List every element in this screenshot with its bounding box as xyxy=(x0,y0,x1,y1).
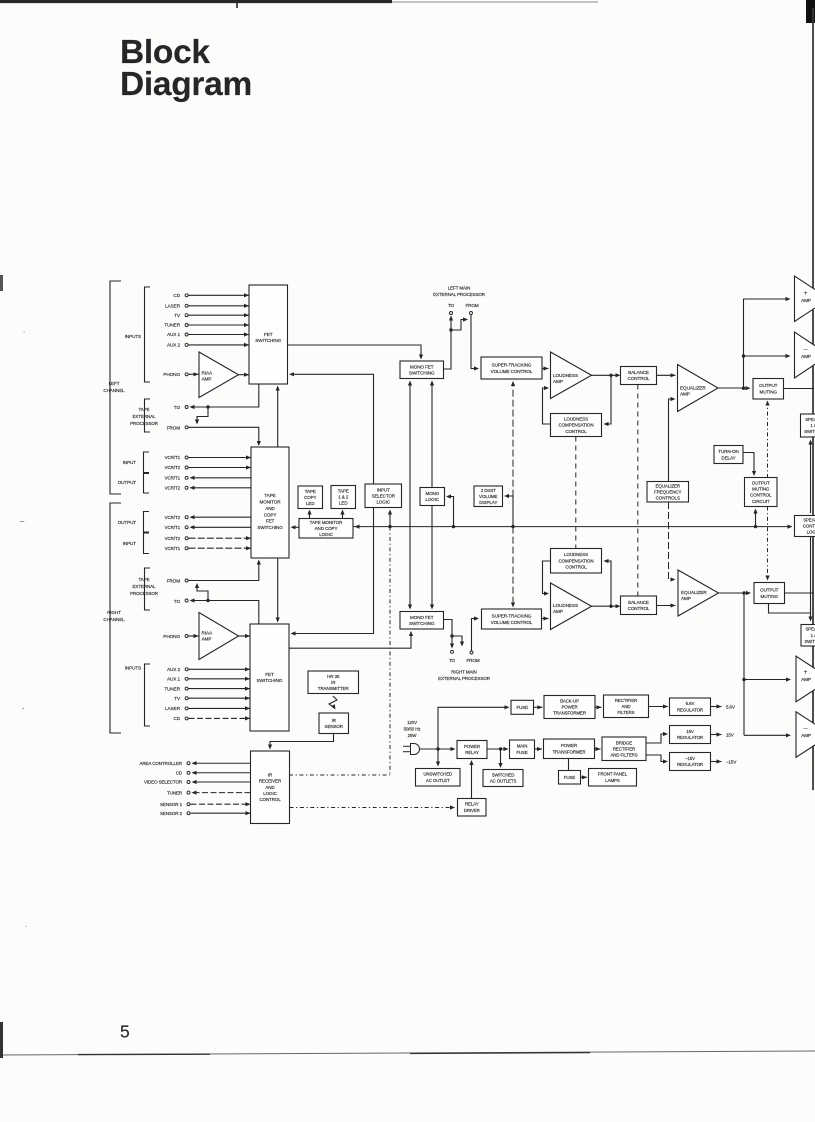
svg-text:LED: LED xyxy=(306,501,315,506)
bracket INPUT vcr right xyxy=(144,533,150,554)
svg-text:EXTERNAL PROCESSOR: EXTERNAL PROCESSOR xyxy=(433,292,486,297)
wire output muting right to right edge xyxy=(785,592,815,594)
bracket TAPE EXTERNAL PROCESSOR (left) xyxy=(145,399,151,432)
wire tape led drive xyxy=(342,511,344,519)
box IR RECEIVER AND LOGIC CONTROL xyxy=(251,751,290,824)
box LOUDNESS COMPENSATION CONTROL (left) xyxy=(551,414,602,437)
bracket OUTPUT vcr right xyxy=(144,512,150,533)
svg-text:CONTROL: CONTROL xyxy=(259,797,281,802)
svg-text:LOUDNESS: LOUDNESS xyxy=(553,373,578,378)
wire relay driver to power relay xyxy=(471,762,473,799)
ganged dashed link loudness compensation xyxy=(575,437,577,549)
ganged dashed link balance controls xyxy=(637,385,639,597)
svg-text:PROCESSOR: PROCESSOR xyxy=(130,591,159,596)
svg-text:POWER: POWER xyxy=(464,744,480,749)
op-amp EQUALIZER AMP (right) xyxy=(678,570,719,616)
junction right main TO wire xyxy=(450,634,453,637)
op-amp LOUDNESS AMP (left) xyxy=(551,352,592,399)
wire input selector logic to FET right xyxy=(292,508,374,634)
box -15V REGULATOR xyxy=(670,753,711,771)
svg-text:VCR/T2: VCR/T2 xyxy=(165,465,181,470)
svg-text:RECEIVER: RECEIVER xyxy=(259,779,282,784)
svg-text:OUTPUT: OUTPUT xyxy=(118,480,137,485)
box RECTIFIER AND FILTERS xyxy=(604,695,649,718)
svg-text:CD: CD xyxy=(173,716,180,721)
svg-text:SPEAKER: SPEAKER xyxy=(803,517,815,522)
box SUPER-TRACKING VOLUME CONTROL (right) xyxy=(482,609,542,629)
svg-text:FROM: FROM xyxy=(465,303,478,308)
svg-text:TUNER: TUNER xyxy=(164,686,180,691)
svg-text:TV: TV xyxy=(174,696,181,701)
svg-text:AUX 1: AUX 1 xyxy=(167,332,181,337)
normalled contact right main xyxy=(452,636,462,645)
svg-text:AMP: AMP xyxy=(202,377,212,382)
wire copy led drive xyxy=(309,511,311,519)
svg-text:UNSWITCHED: UNSWITCHED xyxy=(423,772,452,777)
box 5.6V REGULATOR xyxy=(670,698,711,716)
svg-text:AMP: AMP xyxy=(553,609,563,614)
svg-text:INPUT: INPUT xyxy=(123,541,137,546)
svg-text:EQUALIZER: EQUALIZER xyxy=(680,386,706,391)
svg-text:DRIVER: DRIVER xyxy=(464,808,480,813)
svg-text:LOUDNESS: LOUDNESS xyxy=(553,603,578,608)
bracket INPUTS right xyxy=(145,664,151,726)
jack FROM (right main ext processor) xyxy=(470,651,473,654)
wire feed to power amps right xyxy=(743,593,745,735)
svg-text:SWITCHING: SWITCHING xyxy=(409,370,435,375)
wire equalizer frequency controls to eq amp left xyxy=(669,399,675,482)
svg-text:AMP: AMP xyxy=(202,637,212,642)
junction control bus at muting xyxy=(754,525,757,528)
wire volume control to loudness amp left xyxy=(542,368,549,370)
wire balance to equalizer amp left xyxy=(657,374,676,376)
svg-text:PHONO: PHONO xyxy=(163,634,180,639)
svg-text:FROM: FROM xyxy=(167,579,181,584)
svg-text:AMP: AMP xyxy=(801,677,811,682)
svg-text:VOLUME: VOLUME xyxy=(479,494,498,499)
svg-text:REGULATOR: REGULATOR xyxy=(677,735,703,740)
wire IR logic to relay driver xyxy=(290,807,454,809)
svg-text:VCR/T1: VCR/T1 xyxy=(165,525,181,530)
svg-text:SWITCHING: SWITCHING xyxy=(409,621,435,626)
wire back-up transformer to rectifier xyxy=(595,706,602,708)
wire output muting left to right edge xyxy=(784,388,815,390)
power amp - AMP (left) xyxy=(795,332,815,378)
svg-text:RECTIFIER: RECTIFIER xyxy=(613,746,635,751)
svg-text:TAPE: TAPE xyxy=(138,577,149,582)
svg-text:VCR/T2: VCR/T2 xyxy=(165,486,181,491)
svg-text:CONTROL: CONTROL xyxy=(628,376,650,381)
svg-text:INPUTS: INPUTS xyxy=(125,666,141,671)
wire output muting right to speaker switch xyxy=(769,604,811,614)
box 2 DIGIT VOLUME DISPLAY xyxy=(474,486,503,507)
wire speaker logic to speaker switch left xyxy=(810,441,812,513)
right page edge line xyxy=(812,8,814,790)
svg-text:FET: FET xyxy=(265,672,274,677)
svg-text:TUNER: TUNER xyxy=(164,323,180,328)
control bus horizontal xyxy=(353,526,791,528)
wire bus to volume control right xyxy=(512,527,514,606)
svg-text:SWITCHED: SWITCHED xyxy=(492,772,515,777)
svg-text:1 & 2: 1 & 2 xyxy=(338,495,349,500)
junction on left main TO wire xyxy=(449,328,452,331)
svg-text:FET: FET xyxy=(266,519,275,524)
wire FET right out to MONO FET right xyxy=(289,633,411,649)
svg-text:EXTERNAL: EXTERNAL xyxy=(133,584,157,589)
svg-text:+: + xyxy=(804,669,808,676)
wire to loudness compensation left xyxy=(605,375,611,424)
wire control bus up into muting control circuit xyxy=(755,510,757,527)
svg-text:MUTING: MUTING xyxy=(759,390,777,395)
svg-text:SWITCHING: SWITCHING xyxy=(257,525,283,530)
box IR SENSOR xyxy=(319,713,349,734)
normalled contact left main xyxy=(451,320,467,331)
bracket LEFT CHANNEL xyxy=(110,281,121,494)
op-amp EQUALIZER AMP (left) xyxy=(678,365,719,412)
box OUTPUT MUTING (left) xyxy=(753,379,784,400)
svg-text:AND: AND xyxy=(622,704,631,709)
wire 5.6V output xyxy=(711,706,722,708)
box 15V REGULATOR xyxy=(670,726,711,744)
svg-text:LOGIC: LOGIC xyxy=(376,499,390,504)
svg-text:TAPE: TAPE xyxy=(338,489,349,494)
svg-text:AMP: AMP xyxy=(801,733,811,738)
svg-text:TRANSMITTER: TRANSMITTER xyxy=(318,686,350,691)
box SWITCHED AC OUTLETS xyxy=(483,770,523,787)
wire RIAA out to FET switching xyxy=(239,374,250,376)
op-amp RIAA AMP (right) xyxy=(199,613,239,660)
svg-text:LOGIC: LOGIC xyxy=(425,497,439,502)
svg-text:15V: 15V xyxy=(726,733,734,738)
svg-text:VCR/T2: VCR/T2 xyxy=(165,515,181,520)
svg-text:TRANSFORMER: TRANSFORMER xyxy=(553,749,586,754)
svg-text:RIAA: RIAA xyxy=(202,631,214,636)
wire lamp fuse to front panel lamps xyxy=(581,776,588,778)
box MAIN FUSE xyxy=(510,740,535,759)
junction AC at unswitched outlet xyxy=(436,747,439,750)
wire compensation back to loudness amp right xyxy=(543,561,551,594)
svg-text:TRANSFORMER: TRANSFORMER xyxy=(553,711,586,716)
wire equalizer amp right to output muting xyxy=(719,592,750,594)
box SUPER-TRACKING VOLUME CONTROL (left) xyxy=(481,357,542,379)
wire speaker logic down to speaker switch right xyxy=(810,537,812,621)
op-amp LOUDNESS AMP (right) xyxy=(551,583,592,630)
normalled contact right loop xyxy=(197,585,208,601)
wire balance right to equalizer amp xyxy=(657,605,676,607)
svg-text:LASER: LASER xyxy=(165,706,181,711)
wire bus to mono logic xyxy=(448,497,454,527)
wire MONO FET left to TO jack xyxy=(444,317,452,370)
svg-text:COMPENSATION: COMPENSATION xyxy=(559,558,594,563)
wire AC to unswitched outlet xyxy=(437,749,439,765)
svg-text:CD: CD xyxy=(173,293,180,298)
wire bus to volume control left xyxy=(512,382,514,527)
junction bus at volume display xyxy=(511,525,514,528)
wire AC to back-up fuse xyxy=(438,707,508,749)
svg-text:AUX 2: AUX 2 xyxy=(167,667,181,672)
junction loudness out right xyxy=(609,605,612,608)
svg-text:RIAA: RIAA xyxy=(202,371,214,376)
normalled contact TO->FROM xyxy=(197,407,208,423)
svg-text:VIDEO SELECTOR: VIDEO SELECTOR xyxy=(144,780,183,785)
svg-text:RELAY: RELAY xyxy=(465,750,479,755)
jack TO (right main ext processor) xyxy=(451,650,454,653)
svg-text:FUSE: FUSE xyxy=(516,705,528,710)
svg-text:BALANCE: BALANCE xyxy=(628,370,649,375)
svg-text:BRIDGE: BRIDGE xyxy=(616,740,632,745)
svg-text:INPUT: INPUT xyxy=(123,460,137,465)
wire power relay to main fuse xyxy=(487,748,507,750)
svg-text:SWITCHING: SWITCHING xyxy=(257,678,283,683)
wire AC plug to power relay xyxy=(420,748,455,750)
svg-text:INPUT: INPUT xyxy=(377,487,390,492)
svg-text:COMPENSATION: COMPENSATION xyxy=(559,423,594,428)
box BALANCE CONTROL (right) xyxy=(621,596,657,615)
svg-text:2 DIGIT: 2 DIGIT xyxy=(481,488,496,493)
wire FROM jack to tape monitor box bottom xyxy=(189,561,259,581)
svg-text:TO: TO xyxy=(174,405,181,410)
svg-text:CONTROLS: CONTROLS xyxy=(656,495,680,500)
svg-text:5.6V: 5.6V xyxy=(686,701,695,706)
box FUSE (lamps) xyxy=(559,771,581,785)
svg-text:EXTERNAL PROCESSOR: EXTERNAL PROCESSOR xyxy=(438,676,491,681)
wire volume control right to loudness amp xyxy=(542,618,549,620)
svg-text:CONTROL: CONTROL xyxy=(628,606,650,611)
wire minus amp feed right xyxy=(744,734,790,736)
junction plus amp feed right xyxy=(742,678,745,681)
svg-text:MAIN: MAIN xyxy=(517,744,528,749)
svg-text:OUTPUT: OUTPUT xyxy=(118,520,137,525)
box TAPE 1 & 2 LED xyxy=(331,486,356,509)
svg-text:MONO FET: MONO FET xyxy=(410,364,434,369)
svg-text:5.6V: 5.6V xyxy=(726,705,735,710)
power amp + AMP (right) xyxy=(796,656,815,702)
box BRIDGE RECTIFIER AND FILTERS xyxy=(602,737,646,761)
svg-text:LOGIC: LOGIC xyxy=(319,532,333,537)
svg-text:AND COPY: AND COPY xyxy=(315,526,338,531)
svg-text:MONITOR: MONITOR xyxy=(260,500,282,505)
box UNSWITCHED AC OUTLET xyxy=(416,769,461,787)
svg-text:−15V: −15V xyxy=(685,756,695,761)
svg-text:AMP: AMP xyxy=(681,596,691,601)
svg-text:AREA CONTROLLER: AREA CONTROLLER xyxy=(139,761,182,766)
svg-text:RIGHT: RIGHT xyxy=(107,610,121,615)
svg-text:LOGIC: LOGIC xyxy=(263,791,277,796)
wire FROM jack up to volume control right xyxy=(472,619,478,651)
wire main fuse to power transformer xyxy=(535,748,543,750)
wire IR logic control riser to bus xyxy=(389,527,391,775)
wire bridge to 15V regulator xyxy=(646,734,667,743)
svg-text:DISPLAY: DISPLAY xyxy=(479,500,497,505)
wire bus to input selector logic xyxy=(389,511,391,527)
box FET SWITCHING (right) U-FETR xyxy=(250,624,289,731)
box TAPE MONITOR AND COPY LOGIC xyxy=(299,519,353,539)
mono bus line B upper xyxy=(431,382,433,488)
left margin specks xyxy=(0,1022,3,1058)
svg-text:CONTROL: CONTROL xyxy=(803,524,815,529)
wire muting control to output muting right xyxy=(767,507,769,580)
svg-text:SPEAKER: SPEAKER xyxy=(805,417,815,422)
svg-text:OUTPUT: OUTPUT xyxy=(760,587,779,592)
svg-text:SUPER-TRACKING: SUPER-TRACKING xyxy=(492,613,532,618)
box POWER RELAY xyxy=(457,741,487,759)
wire FROM jack down to volume control xyxy=(471,315,478,369)
mono bus line A xyxy=(409,382,411,609)
svg-text:CD: CD xyxy=(176,771,183,776)
svg-text:LAMPS: LAMPS xyxy=(605,778,620,783)
svg-text:LOUDNESS: LOUDNESS xyxy=(564,552,588,557)
svg-text:REGULATOR: REGULATOR xyxy=(677,707,703,712)
box OUTPUT MUTING CONTROL CIRCUIT xyxy=(745,478,778,507)
wire FROM jack to tape monitor box xyxy=(189,427,259,444)
box FRONT PANEL LAMPS xyxy=(589,769,637,787)
box FET SWITCHING (left) U-FETL xyxy=(249,285,288,384)
box SPEAKER 1 AND 2 SWITCH (left, page edge) xyxy=(801,414,815,437)
svg-text:COPY: COPY xyxy=(304,495,316,500)
junction on TO wire xyxy=(206,405,209,408)
box TURN-ON DELAY xyxy=(714,446,743,464)
wire loudness amp right output xyxy=(592,605,620,607)
junction bus at input selector xyxy=(388,525,391,528)
svg-text:−15V: −15V xyxy=(726,760,736,765)
svg-text:SWITCHING: SWITCHING xyxy=(255,338,281,343)
svg-text:CIRCUIT: CIRCUIT xyxy=(752,499,770,504)
box EQUALIZER FREQUENCY CONTROLS xyxy=(647,482,689,503)
svg-text:LOGIC: LOGIC xyxy=(807,530,815,535)
svg-text:SENSOR: SENSOR xyxy=(325,724,344,729)
svg-text:BACK-UP: BACK-UP xyxy=(560,699,579,704)
svg-text:CONTROL: CONTROL xyxy=(565,565,587,570)
box TAPE MONITOR AND COPY FET SWITCHING U-TM xyxy=(251,447,289,558)
svg-text:VCR/T1: VCR/T1 xyxy=(165,455,181,460)
svg-text:+: + xyxy=(804,290,808,297)
svg-text:TAPE: TAPE xyxy=(305,489,316,494)
svg-text:PROCESSOR: PROCESSOR xyxy=(130,421,159,426)
svg-text:FUSE: FUSE xyxy=(564,775,576,780)
svg-text:AC OUTLET: AC OUTLET xyxy=(426,778,450,783)
wire tape monitor logic to tape monitor box xyxy=(292,526,299,528)
svg-text:RIGHT MAIN: RIGHT MAIN xyxy=(451,670,476,675)
box FUSE (back-up) xyxy=(511,700,534,714)
mono bus line B lower xyxy=(431,506,433,609)
svg-text:Diagram: Diagram xyxy=(120,66,252,103)
junction eq out left xyxy=(742,387,745,390)
power amp + AMP (left) xyxy=(795,276,815,322)
bracket INPUT vcr left xyxy=(144,452,150,473)
top page edge line xyxy=(0,0,392,3)
box RELAY DRIVER xyxy=(458,799,487,817)
wire compensation back to loudness amp left xyxy=(543,388,551,424)
svg-text:DELAY: DELAY xyxy=(721,455,735,460)
svg-text:EQUALIZER: EQUALIZER xyxy=(681,590,707,595)
svg-text:AMP: AMP xyxy=(680,392,690,397)
svg-text:TAPE: TAPE xyxy=(138,407,149,412)
svg-text:AMP: AMP xyxy=(801,354,811,359)
box OUTPUT MUTING (right) xyxy=(754,583,785,604)
svg-text:SELECTOR: SELECTOR xyxy=(372,493,396,498)
svg-text:1 & 2: 1 & 2 xyxy=(810,423,815,428)
wire FET left out to MONO FET left xyxy=(288,345,422,358)
svg-text:PHONO: PHONO xyxy=(163,372,180,377)
svg-text:—: — xyxy=(20,519,25,524)
wire muting control to output muting left xyxy=(767,402,769,478)
wire 15V output xyxy=(711,734,722,736)
svg-text:MONO: MONO xyxy=(425,491,439,496)
junction switched outlets xyxy=(499,747,502,750)
svg-text:VCR/T1: VCR/T1 xyxy=(165,476,181,481)
wire transformer to lamp fuse xyxy=(568,759,570,771)
svg-text:FREQUENCY: FREQUENCY xyxy=(654,489,681,494)
svg-text:SENSOR 2: SENSOR 2 xyxy=(160,811,183,816)
svg-text:AUX 2: AUX 2 xyxy=(167,343,181,348)
svg-text:TO: TO xyxy=(174,599,181,604)
svg-text:TUNER: TUNER xyxy=(167,790,183,795)
top right corner mark xyxy=(806,0,815,23)
svg-text:FILTERS: FILTERS xyxy=(617,710,634,715)
box BACK-UP POWER TRANSFORMER xyxy=(544,696,595,719)
svg-text:RECTIFIER: RECTIFIER xyxy=(615,698,637,703)
svg-text:SENSOR 1: SENSOR 1 xyxy=(160,802,183,807)
svg-text:FRONT PANEL: FRONT PANEL xyxy=(598,772,628,777)
op-amp RIAA AMP (left) xyxy=(199,352,239,398)
svg-text:HR 35: HR 35 xyxy=(327,674,340,679)
svg-text:TAPE MONITOR: TAPE MONITOR xyxy=(310,520,343,525)
wire -15V output xyxy=(711,761,722,763)
svg-text:AMP: AMP xyxy=(553,379,563,384)
IR beam squiggle xyxy=(329,696,337,708)
svg-text:OUTPUT: OUTPUT xyxy=(759,383,778,388)
wire RIAA right out to FET switching xyxy=(239,635,251,637)
bracket OUTPUT vcr left xyxy=(144,474,150,494)
bracket TAPE EXTERNAL PROCESSOR (right) xyxy=(145,568,151,610)
wire tape monitor return to FET switching bottom xyxy=(277,387,279,447)
svg-text:LED: LED xyxy=(339,501,348,506)
svg-text:FUSE: FUSE xyxy=(516,750,527,755)
wire MONO FET right to TO jack (right main) xyxy=(444,620,453,648)
junction bus at mono logic xyxy=(452,525,455,528)
svg-text:SWITCHES: SWITCHES xyxy=(804,639,815,644)
wire fuse to back-up transformer xyxy=(534,706,543,708)
svg-text:VOLUME CONTROL: VOLUME CONTROL xyxy=(491,369,533,374)
svg-text:EXTERNAL: EXTERNAL xyxy=(133,414,157,419)
bracket RIGHT CHANNEL xyxy=(110,503,121,733)
power amp - AMP (right) xyxy=(796,712,815,758)
junction eq out right xyxy=(742,591,745,594)
svg-text:VOLUME CONTROL: VOLUME CONTROL xyxy=(491,620,533,625)
wire power transformer to bridge rectifier xyxy=(595,748,601,750)
wire IR sensor to IR logic xyxy=(270,734,334,749)
wire equalizer amp left to output muting xyxy=(718,387,749,389)
svg-text:VCR/T1: VCR/T1 xyxy=(165,546,181,551)
svg-text:SUPER-TRACKING: SUPER-TRACKING xyxy=(492,362,532,367)
svg-text:COPY: COPY xyxy=(264,512,277,517)
wire rectifier to 5.6V regulator xyxy=(649,706,669,708)
svg-text:EQUALIZER: EQUALIZER xyxy=(655,483,680,488)
box HR 35 IR TRANSMITTER xyxy=(308,671,359,694)
junction loudness out left xyxy=(609,374,612,377)
box TAPE COPY LED xyxy=(298,486,323,509)
wire to switched outlets xyxy=(500,749,502,767)
wire FET right top to TO jack xyxy=(191,601,259,625)
svg-text:LASER: LASER xyxy=(165,304,181,309)
svg-text:25W: 25W xyxy=(408,733,418,738)
wire bus to volume display xyxy=(506,496,514,527)
wire bridge to -15V regulator xyxy=(646,755,667,762)
svg-text:SWITCHES: SWITCHES xyxy=(804,429,815,434)
svg-text:50/60 Hz: 50/60 Hz xyxy=(404,727,421,732)
svg-text:VCR/T2: VCR/T2 xyxy=(165,536,181,541)
svg-text:FROM: FROM xyxy=(466,658,479,663)
